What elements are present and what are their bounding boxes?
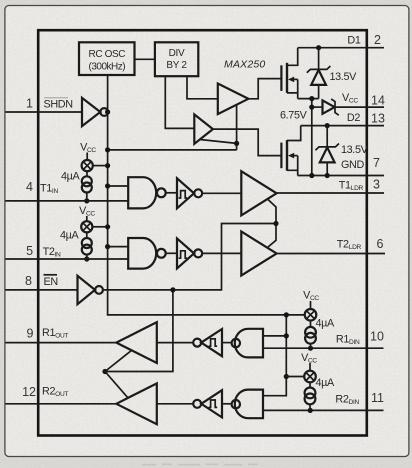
wire bus to gate G1 <box>108 185 128 187</box>
driver T2 <box>241 232 276 276</box>
wire driver enable from EN <box>103 224 276 290</box>
transistor Q2 <box>281 140 297 175</box>
inverter U2 EN <box>78 276 96 304</box>
current switch S2 <box>79 205 110 232</box>
wire node 6.75V <box>298 98 319 100</box>
wire node GND pin 7 <box>298 175 384 177</box>
wire T1 output pin 3 <box>277 192 384 194</box>
zener D5 13.5V <box>315 126 368 176</box>
junction bus to enable rail <box>105 147 110 152</box>
wire node D1 <box>298 47 367 49</box>
diode D4 to VCC <box>312 99 367 115</box>
wire R2DIN pin 11 <box>263 409 384 411</box>
junction bus to G2 <box>105 244 110 249</box>
node shdn bus junction <box>105 109 110 114</box>
wire R1DIN pin 10 <box>263 347 384 349</box>
wire T2 output pin 6 <box>277 253 385 255</box>
overline on SHDN <box>44 97 68 99</box>
driver T1 <box>241 171 276 215</box>
level shifter LS4 <box>193 390 232 417</box>
junction EN branch <box>170 287 175 292</box>
RC OSC block <box>79 42 135 75</box>
junction GND node b <box>325 173 330 178</box>
receiver R2 <box>116 383 157 424</box>
level shifter LS2 <box>177 238 241 268</box>
inverter U1 SHDN <box>82 98 100 126</box>
wire center node down <box>311 99 313 176</box>
wire RC OSC to DIV <box>135 58 155 60</box>
junction R2DIN pullup <box>308 408 313 413</box>
wire R1 input <box>157 342 193 344</box>
wire shutdown bus (RC OSC bottom down left side) <box>108 75 305 315</box>
junction R1DIN pullup <box>308 346 313 351</box>
junction S4 rail <box>284 374 289 379</box>
nand gate G2 <box>128 238 177 269</box>
nand gate G3 <box>232 329 263 358</box>
current switch S4 <box>286 352 317 383</box>
buffer B2 charge pump <box>194 114 213 143</box>
junction G3 input <box>284 333 289 338</box>
current source I2 4uA <box>60 230 92 262</box>
nand gate G4 <box>232 390 263 419</box>
wire B2 output to Q2 gate <box>213 129 282 156</box>
wire DIV output to buffer B2 <box>165 76 194 128</box>
junction D1 node <box>316 45 321 50</box>
level shifter LS3 <box>193 329 232 356</box>
wire pin1 <box>6 111 83 113</box>
current source I1 4uA <box>61 171 92 204</box>
wire R2 input <box>157 403 193 405</box>
wire G3 enable input <box>263 335 286 337</box>
inner schematic box <box>38 30 367 435</box>
current source I3 4uA <box>305 317 335 348</box>
junction bus to G1 <box>105 183 110 188</box>
wire bus to gate G2 <box>108 246 128 248</box>
wire shdn rail branch down <box>263 315 286 396</box>
current switch S1 <box>80 141 110 171</box>
junction GND node a <box>309 173 314 178</box>
pin 2 D1 <box>367 47 384 49</box>
current switch S3 <box>303 290 319 321</box>
transistor Q1 <box>281 48 297 99</box>
buffer B1 charge pump <box>218 84 249 115</box>
wire bus to charge-pump enable rail <box>108 149 237 151</box>
ghost caption marks at bottom edge <box>142 464 258 465</box>
pin 13 D2 <box>301 125 384 127</box>
wire D2 line to Q2 drain <box>287 126 301 141</box>
junction buffer enables <box>234 141 239 146</box>
level shifter LS1 <box>177 178 241 208</box>
junction driver enable <box>273 221 278 226</box>
nand gate G1 <box>128 177 177 208</box>
wire buffers enable <box>200 105 237 150</box>
current source I4 4uA <box>305 377 335 410</box>
wire DIV output to buffer B1 <box>187 76 218 99</box>
junction receiver enables <box>102 369 107 374</box>
wire receiver enables <box>105 351 131 372</box>
junction 6.75V node <box>309 96 314 101</box>
zener D3 13.5V <box>307 48 357 99</box>
pin 14 VCC <box>367 106 384 108</box>
junction D2 node <box>325 123 330 128</box>
wire EN branch to receivers <box>105 290 173 372</box>
junction rail branch <box>284 312 289 317</box>
receiver R1 <box>116 322 157 363</box>
DIV BY 2 block <box>155 42 198 76</box>
junction diode anode <box>309 105 314 110</box>
wire B1 output to Q1 gate <box>248 79 281 99</box>
